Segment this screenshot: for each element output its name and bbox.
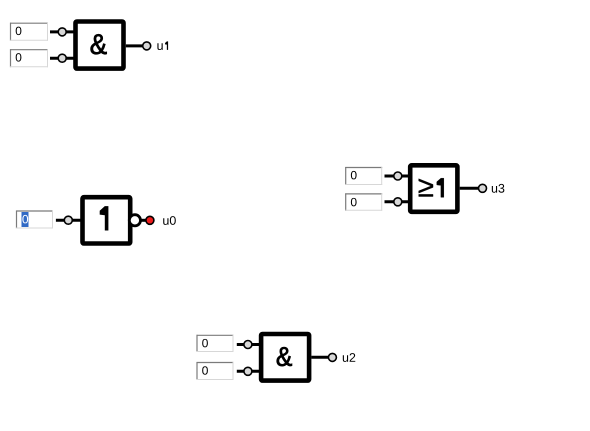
OR gate U3 body — [410, 165, 457, 212]
NOT gate U0 body — [83, 197, 131, 243]
wire U3 input A — [385, 175, 410, 178]
wire U2 input A — [237, 343, 261, 346]
wire U1 input A — [50, 30, 75, 33]
wire U3 output — [460, 187, 479, 190]
wire U1 output — [126, 44, 143, 47]
wire U2 input B — [237, 370, 261, 373]
pin U2 input A — [244, 341, 252, 349]
label u3 — [492, 184, 505, 193]
input value box U1 pin A (value 0) — [10, 23, 48, 41]
pin U0 input — [64, 216, 72, 224]
pin U1 output — [143, 42, 151, 50]
pin U1 input A — [58, 28, 66, 36]
input value box U3 pin A (value 0) — [345, 167, 382, 185]
label u1 — [157, 41, 168, 50]
input value box U0 pin A (value 0, selected) — [16, 211, 53, 229]
input value box U1 pin B (value 0) — [10, 49, 48, 67]
pin U3 input A — [394, 172, 402, 180]
input value box U2 pin A (value 0) — [197, 335, 234, 352]
wire U1 input B — [50, 57, 75, 60]
wire U0 output — [140, 219, 146, 222]
input value box U3 pin B (value 0) — [345, 193, 382, 210]
pin U0 output (high, red) — [146, 216, 154, 224]
pin U3 output — [479, 184, 487, 192]
wire U3 input B — [385, 200, 410, 203]
wire U0 input — [56, 219, 81, 222]
label u0 — [163, 216, 176, 225]
inversion bubble U0 output — [129, 215, 140, 226]
pin U1 input B — [58, 54, 66, 62]
pin U2 input B — [244, 367, 252, 375]
wire U2 output — [311, 356, 328, 359]
pin U2 output — [328, 353, 336, 361]
AND gate U1 body — [76, 22, 124, 69]
pin U3 input B — [394, 198, 402, 206]
AND gate U2 body — [261, 334, 309, 381]
label u2 — [343, 353, 355, 362]
input value box U2 pin B (value 0) — [197, 362, 234, 380]
